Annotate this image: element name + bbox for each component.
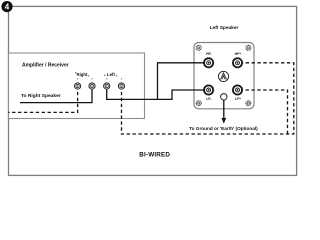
svg-text:To Right Speaker: To Right Speaker bbox=[21, 93, 61, 99]
svg-text:HF+: HF+ bbox=[235, 52, 242, 56]
left speaker terminal panel bbox=[194, 43, 254, 109]
polarity tick marks above amp posts bbox=[77, 78, 122, 80]
wire: right speaker minus (solid) bbox=[20, 86, 92, 103]
wire: left minus run to LF- bbox=[107, 86, 209, 99]
amp binding post 2 (Right +) bbox=[89, 83, 95, 89]
ground terminal bbox=[221, 94, 227, 100]
amplifier/receiver box bbox=[9, 53, 145, 119]
wire: right speaker plus (dashed) bbox=[8, 86, 77, 112]
speaker post HF+ bbox=[232, 58, 242, 68]
step badge 4 bbox=[1, 1, 12, 12]
wire: left plus run to HF+ (dashed) bbox=[122, 63, 294, 134]
brand logo bbox=[218, 71, 228, 81]
svg-text:Right: Right bbox=[77, 72, 89, 77]
speaker panel corner screws bbox=[196, 45, 251, 105]
wire: HF- branch bbox=[158, 63, 209, 100]
svg-text:HF-: HF- bbox=[206, 52, 212, 56]
svg-text:Left: Left bbox=[107, 72, 115, 77]
amp binding post 1 (Right -) bbox=[75, 83, 81, 89]
speaker post LF- bbox=[204, 85, 214, 95]
svg-text:To Ground or 'Earth' (Optional: To Ground or 'Earth' (Optional) bbox=[189, 126, 258, 131]
svg-text:Amplifier / Receiver: Amplifier / Receiver bbox=[22, 62, 69, 68]
svg-text:LF+: LF+ bbox=[235, 97, 241, 101]
speaker post HF- bbox=[204, 58, 214, 68]
ground arrow bbox=[223, 100, 225, 119]
svg-text:4: 4 bbox=[5, 3, 10, 12]
amp binding post 4 (Left +) bbox=[118, 83, 124, 89]
svg-text:LF-: LF- bbox=[206, 97, 211, 101]
svg-text:Left Speaker: Left Speaker bbox=[210, 25, 239, 31]
svg-text:BI-WIRED: BI-WIRED bbox=[139, 152, 170, 159]
wire: LF+ branch (dashed) bbox=[238, 90, 288, 134]
border frame bbox=[9, 6, 297, 175]
amp binding post 3 (Left -) bbox=[104, 83, 110, 89]
speaker post LF+ bbox=[232, 85, 242, 95]
tick marks flanking labels bbox=[75, 72, 117, 76]
